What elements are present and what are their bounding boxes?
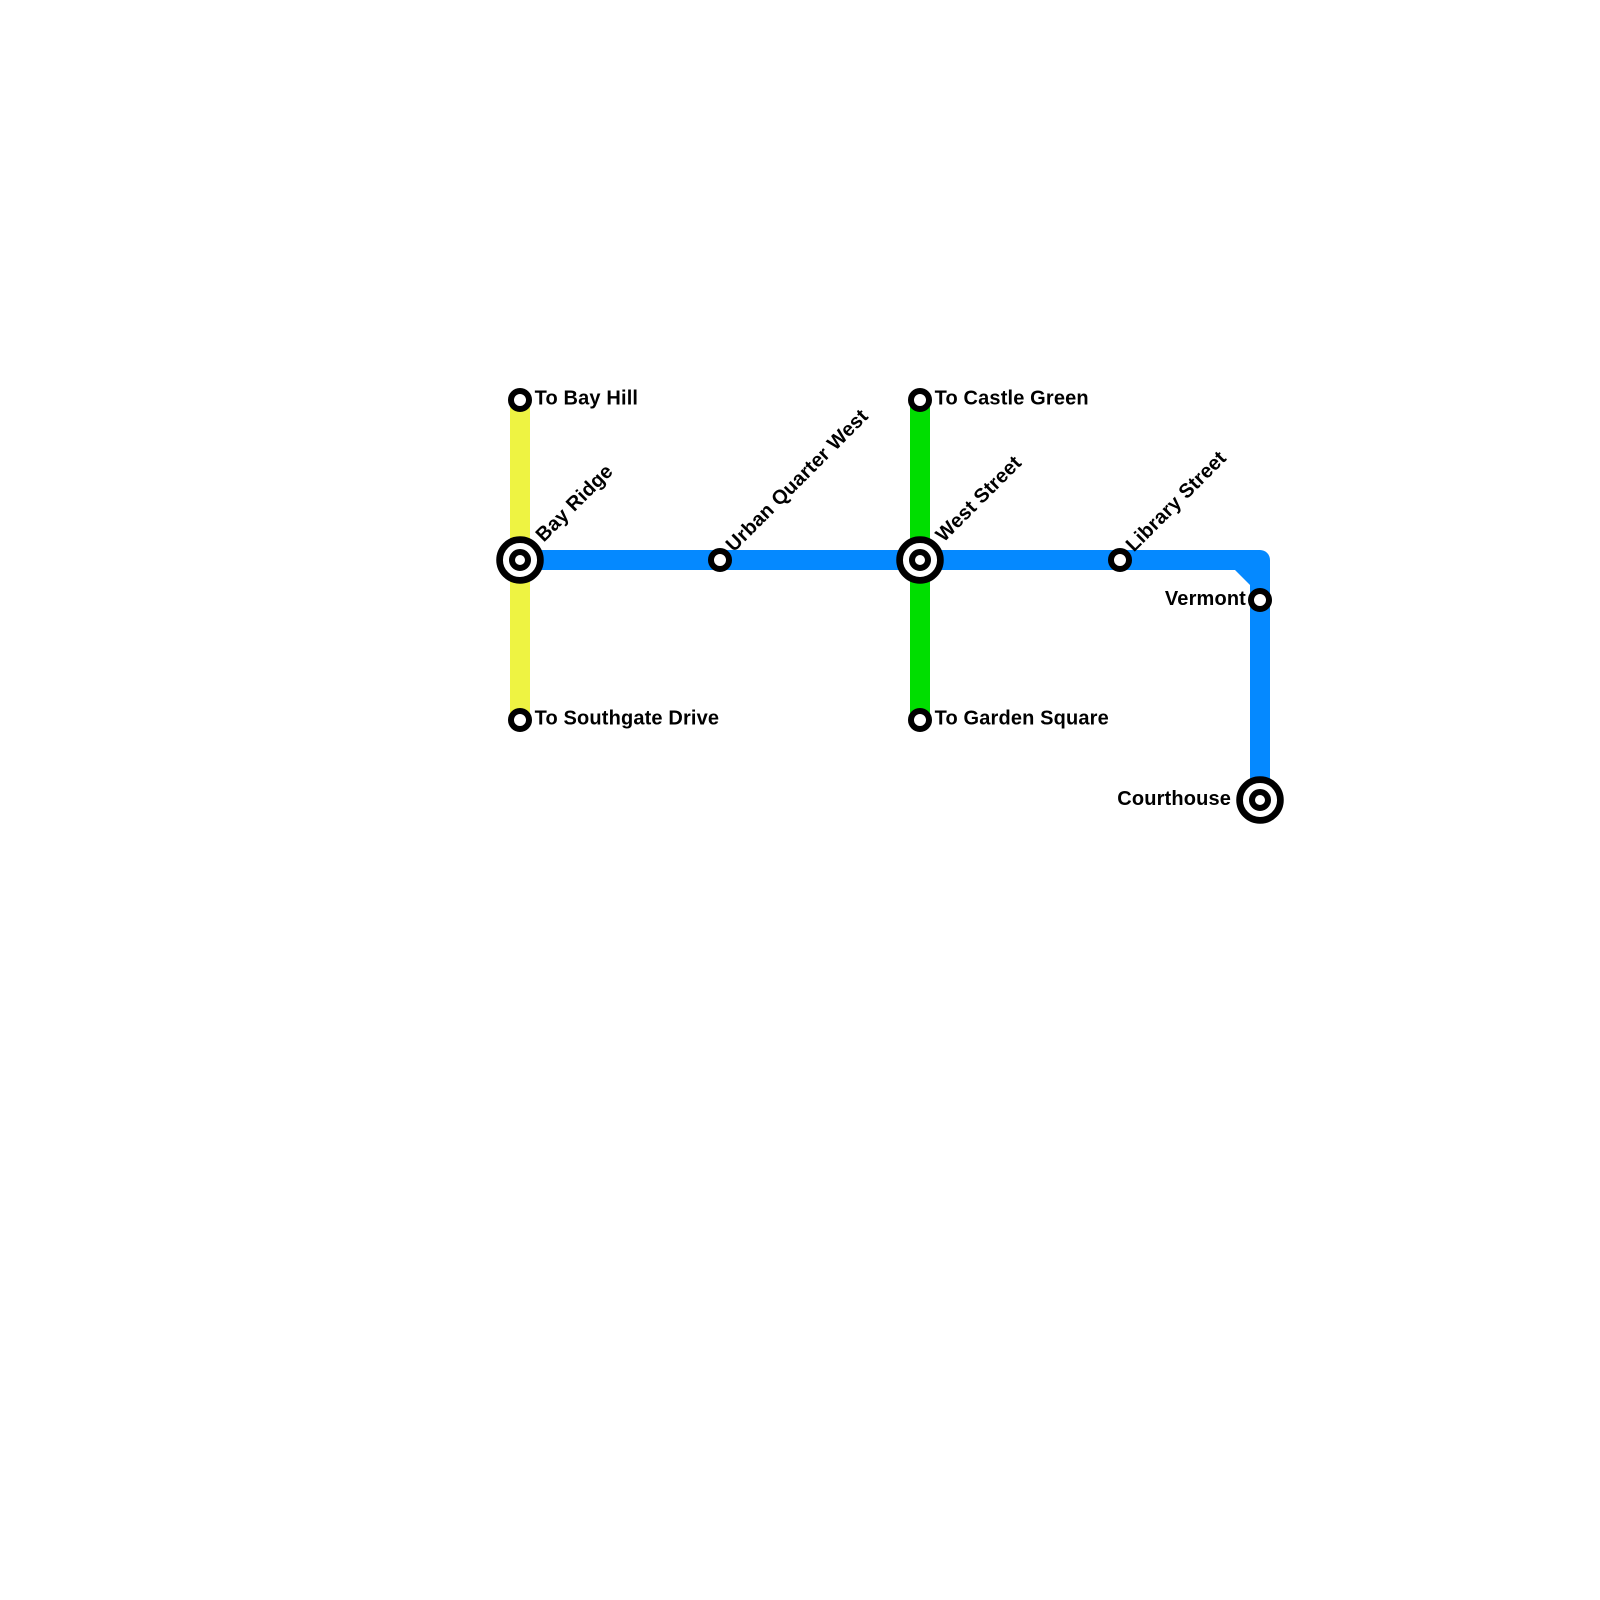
svg-text:To Bay Hill: To Bay Hill bbox=[535, 388, 639, 410]
station To Garden Square bbox=[911, 711, 929, 729]
svg-text:To Southgate Drive: To Southgate Drive bbox=[535, 708, 720, 730]
yellow line (To Bay Hill - To Southgate Drive) bbox=[510, 400, 530, 720]
station To Southgate Drive bbox=[511, 711, 529, 729]
interchange Bay Ridge bbox=[500, 540, 541, 581]
blue line corner chamfer fill bbox=[1235, 570, 1251, 586]
station Library Street bbox=[1111, 551, 1129, 569]
svg-text:Courthouse: Courthouse bbox=[1117, 788, 1231, 810]
green line (To Castle Green - To Garden Square) bbox=[910, 400, 930, 720]
station Urban Quarter West bbox=[711, 551, 729, 569]
svg-text:To Garden Square: To Garden Square bbox=[935, 708, 1109, 730]
station To Bay Hill bbox=[511, 391, 529, 409]
station To Castle Green bbox=[911, 391, 929, 409]
station Vermont bbox=[1251, 591, 1269, 609]
interchange Courthouse bbox=[1240, 780, 1281, 821]
svg-text:To Castle Green: To Castle Green bbox=[935, 388, 1089, 410]
svg-text:Vermont: Vermont bbox=[1165, 588, 1246, 610]
blue line (Bay Ridge - Courthouse) bbox=[520, 560, 1260, 800]
interchange West Street bbox=[900, 540, 941, 581]
